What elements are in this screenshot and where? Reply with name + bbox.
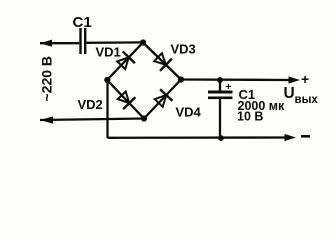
node: bridge top (AC) xyxy=(140,39,146,45)
node: bridge right (DC plus) xyxy=(178,76,184,82)
svg-text:VD3: VD3 xyxy=(171,42,196,57)
svg-text:+: + xyxy=(301,71,309,87)
capacitor C1 dropper: left plate xyxy=(79,28,81,54)
wire: bridge edge VD1 (left node to top node) xyxy=(107,43,143,81)
node: bridge left (DC minus) xyxy=(104,77,110,83)
capacitor C1 electrolytic: top plate xyxy=(208,91,233,94)
node: bridge bottom (AC) xyxy=(141,115,147,121)
wire: positive rail from bridge plus node to output arrow xyxy=(181,78,291,81)
wire: bridge edge VD2 (left node to bottom node) xyxy=(107,80,144,119)
svg-text:~220 В: ~220 В xyxy=(39,56,55,102)
capacitor C1 dropper: right plate xyxy=(84,28,86,54)
svg-text:C1: C1 xyxy=(73,14,92,31)
svg-text:VD2: VD2 xyxy=(78,97,103,112)
arrow: output minus terminal xyxy=(285,134,297,141)
wire: top AC line, arrow to dropper cap C1 xyxy=(40,42,79,44)
capacitor C1 electrolytic: bottom plate xyxy=(208,97,233,100)
wire: bridge edge VD3 (top node to right node) xyxy=(143,43,181,80)
svg-text:+: + xyxy=(225,81,231,93)
wire: electrolytic C1 top lead xyxy=(219,80,221,91)
wire: negative rail to output arrow xyxy=(108,136,287,139)
arrow: ~220 V input, top lead xyxy=(40,40,52,47)
wire: electrolytic C1 bottom lead xyxy=(219,99,221,138)
wire: bottom AC line, arrow to bridge bottom node xyxy=(40,119,144,121)
diode VD2 xyxy=(118,92,136,110)
node: positive rail / C1 electrolytic junction xyxy=(217,77,223,83)
wire: bridge edge VD4 (bottom node to right node) xyxy=(144,80,181,119)
svg-text:вых: вых xyxy=(295,94,319,106)
svg-text:10 В: 10 В xyxy=(237,110,263,124)
arrow: ~220 V input, bottom lead xyxy=(40,116,53,123)
node: negative rail / C1 electrolytic junction xyxy=(218,135,224,141)
wire: top AC line, dropper cap C1 to bridge top node xyxy=(86,41,143,44)
svg-text:VD1: VD1 xyxy=(96,45,121,60)
svg-text:U: U xyxy=(284,85,295,102)
wire: vertical from bridge minus node down to negative rail xyxy=(106,80,108,138)
svg-text:VD4: VD4 xyxy=(176,105,202,120)
label minus output terminal xyxy=(301,135,310,138)
arrow: output plus terminal xyxy=(289,76,301,83)
diode VD4 xyxy=(155,89,173,107)
diode VD1 xyxy=(117,51,135,69)
diode VD3 xyxy=(154,53,172,71)
